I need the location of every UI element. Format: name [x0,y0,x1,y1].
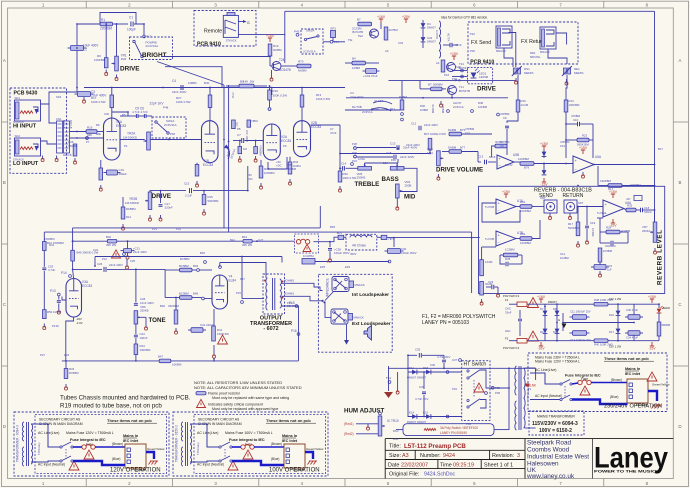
svg-text:C14: C14 [341,162,347,166]
anode riser V1A [111,88,113,119]
svg-text:T/Primary: T/Primary [196,442,200,455]
svg-text:Coombs Wood: Coombs Wood [527,446,570,453]
svg-text:22nF 400V: 22nF 400V [350,95,364,99]
polyswitch F1 [517,302,527,307]
resistor R40 grid EL84 [174,310,178,324]
IEC inlet [284,444,305,468]
IEC inlet 230 [627,379,648,403]
V2B follower output drop [339,125,341,171]
svg-text:-15V: -15V [648,347,656,351]
power +15V U8A [612,194,614,198]
power +16V T24 [269,38,271,42]
wire send jack to relay [509,33,516,68]
svg-text:A4: A4 [436,61,440,65]
svg-text:R22: R22 [582,134,588,138]
ground jack LO [56,156,58,159]
wire bright to B+ drop [157,62,224,86]
svg-text:C35: C35 [415,348,421,352]
svg-text:100V OPERATION: 100V OPERATION [269,468,320,474]
HT rail to transformer [388,367,536,369]
power +15V out [651,299,653,303]
svg-text:Green/Yellow: Green/Yellow [147,447,165,451]
svg-text:1uF: 1uF [607,268,612,272]
resistor R25 top [247,120,251,127]
pin P44 [330,40,333,43]
svg-text:C10: C10 [573,118,579,122]
svg-text:DM007: DM007 [427,26,436,30]
cathode network V1A [100,160,102,168]
svg-text:50KBM: 50KBM [433,83,443,87]
svg-text:P48: P48 [170,132,175,136]
switch SW1B [133,40,135,42]
svg-text:B77: B77 [460,145,465,149]
svg-text:R32: R32 [520,232,526,236]
OT secondary return [282,306,299,361]
thick neutral wire 230 [572,400,627,405]
mains fuse [82,445,86,449]
opamp U7B [496,231,516,246]
svg-text:4C7BM: 4C7BM [389,28,399,32]
wire R34 to return bus [135,355,137,361]
resistor R10 [268,90,272,100]
LED1 drive indicator [471,73,477,79]
drive volume line [340,153,429,155]
ground V2B cathode [289,179,291,182]
svg-text:330nF: 330nF [644,210,652,214]
LED6 power indicator [657,309,662,313]
wire cathode V1B to drive 2 [247,166,249,191]
svg-text:R35: R35 [287,163,293,167]
svg-text:230/240V OPERATION: 230/240V OPERATION [604,404,662,410]
coupling network C7 [241,138,243,143]
svg-text:1C2M: 1C2M [521,103,529,107]
power +20V [405,19,407,23]
svg-text:LED08: LED08 [479,75,488,79]
wire switch to fuse [232,446,241,448]
svg-text:68K: 68K [87,133,92,137]
ground VR3 [437,174,439,177]
svg-text:SECONDARY CIRCUIT AS: SECONDARY CIRCUIT AS [198,418,240,422]
svg-text:P15: P15 [236,291,241,295]
svg-text:RLF3T: RLF3T [374,99,383,103]
pin P43 [296,33,299,36]
svg-text:STKACK: STKACK [13,120,24,124]
svg-text:P27: P27 [40,353,45,357]
svg-text:www.laney.co.uk: www.laney.co.uk [526,473,575,480]
svg-text:L5T-112 Preamp PCB: L5T-112 Preamp PCB [404,443,466,450]
power +15V U5A [582,150,584,154]
choke coil [350,235,372,237]
svg-text:47KBM: 47KBM [441,104,445,114]
svg-text:0AC: 0AC [505,329,511,333]
wire transformer to switch [31,424,60,447]
safety triangle R40c [112,250,121,258]
safety triangle IEC 230 [647,372,657,381]
switch 230 neutral [560,398,562,400]
svg-text:R35: R35 [627,204,633,208]
red arrow down hum [388,366,390,391]
relay RS1 [513,68,516,74]
power +16V rail [380,19,382,23]
svg-text:680uF: 680uF [119,172,128,176]
wires LED feed [452,70,468,72]
svg-text:-2.6V: -2.6V [76,321,83,325]
resistor R41c screen [243,239,252,243]
svg-text:G: G [247,21,250,25]
HT switch dashed box [462,361,490,421]
svg-text:These items not on pcb: These items not on pcb [266,418,311,423]
PSU bottom rail [545,340,594,342]
svg-text:C13 1000uF 25V: C13 1000uF 25V [570,338,591,342]
power +15V bias [453,56,455,60]
svg-text:D11: D11 [409,366,414,370]
speaker icon [364,326,372,341]
resistor R4 [352,61,365,65]
svg-text:4.7nF 3KV: 4.7nF 3KV [415,397,429,401]
svg-text:STKACK: STKACK [13,157,24,161]
svg-text:30K 2W: 30K 2W [106,243,116,247]
wire R1 to C1 [113,23,129,25]
svg-text:14K .5W: 14K .5W [243,80,254,84]
ground C33 [58,308,60,311]
mains transformer [515,366,517,395]
transformer taps [525,367,536,369]
svg-text:R19 mouted to tube base, not o: R19 mouted to tube base, not on pcb [60,403,162,410]
capacitor C44 [449,43,451,48]
svg-text:ECC83: ECC83 [82,284,92,288]
svg-text:47nF: 47nF [231,92,235,99]
svg-text:P43: P43 [294,30,300,34]
ground R33 [65,384,67,387]
svg-text:50nF: 50nF [489,155,496,159]
svg-text:C34 47uF: C34 47uF [626,336,638,340]
svg-text:Y1B: Y1B [203,159,209,163]
ground V1B cathode [196,181,198,184]
svg-text:+15V: +15V [648,295,657,299]
svg-text:C10: C10 [560,144,566,148]
safety triangle fuse 230 [580,386,590,395]
svg-text:REVERB LEVEL: REVERB LEVEL [657,230,664,285]
svg-text:22uF 400V: 22uF 400V [133,250,147,254]
potentiometer VR4 MID [396,184,400,198]
wire YR2A to V1B grid [150,139,201,141]
speaker sense pad [302,259,315,265]
pin P20 [268,108,271,111]
svg-text:TE2: TE2 [358,34,364,38]
send RCA jack [544,200,557,213]
svg-text:P21: P21 [152,227,157,231]
svg-text:47PBM: 47PBM [465,127,475,131]
capacitor C13 treble [396,145,398,150]
svg-text:1MBM: 1MBM [420,108,429,112]
svg-text:R38: R38 [478,101,484,105]
speaker link wire [325,303,331,318]
svg-text:6K8BM: 6K8BM [126,207,136,211]
svg-text:BC5BM: BC5BM [179,264,189,268]
svg-text:C9: C9 [503,116,507,120]
svg-text:C12: C12 [411,122,417,126]
tube Y4 EL84 [212,275,228,309]
svg-text:HT Switch: HT Switch [464,362,487,368]
svg-text:TL072B: TL072B [485,237,494,241]
svg-text:R23: R23 [64,353,70,357]
svg-text:C11 1000uF 25V: C11 1000uF 25V [570,310,591,314]
svg-text:B17: B17 [658,147,663,151]
svg-text:P13C: P13C [52,324,59,328]
svg-text:C37: C37 [452,358,458,362]
svg-text:BC5BM: BC5BM [180,257,190,261]
svg-text:150KBM: 150KBM [44,237,55,241]
svg-text:22/02/2007: 22/02/2007 [401,462,428,468]
resistor R32 [520,237,532,241]
svg-text:Number:: Number: [420,453,441,459]
ground send jack [549,214,551,217]
capacitor C33 grid [57,300,61,302]
safety triangle F1 [528,298,539,308]
svg-text:B: B [3,180,6,185]
svg-text:D16: D16 [609,313,615,317]
svg-text:10KBM: 10KBM [478,105,488,109]
LED1 dashed box [468,68,493,84]
svg-text:P17: P17 [146,35,152,39]
reverb module box [479,186,665,293]
svg-text:MNACK: MNACK [496,49,506,53]
ground R30 [339,186,341,189]
svg-text:+DC: +DC [276,164,282,168]
svg-text:EP3: EP3 [320,265,326,269]
svg-text:B40: B40 [106,235,111,239]
svg-text:+DC: +DC [247,177,253,181]
switch SW2A [304,38,306,40]
resistor R34 tone [135,338,137,344]
MID loop wire [400,168,417,191]
svg-text:DRIVE: DRIVE [152,193,172,200]
100V mains dashed box [173,412,328,476]
svg-text:Remote: Remote [204,29,222,35]
wire switch to fuse [73,446,82,448]
svg-text:C23: C23 [488,280,494,284]
HT rail B [44,231,471,233]
svg-text:P48: P48 [163,106,169,110]
svg-text:100pF: 100pF [127,27,136,31]
Remote PCB 9410 dashed box [194,11,256,47]
svg-text:SK3: SK3 [56,95,62,99]
wire V3A out right [62,297,66,301]
ground R3 [100,185,102,188]
svg-text:- 6072: - 6072 [263,326,278,332]
svg-text:9424: 9424 [443,453,455,459]
ground MID [396,204,398,207]
svg-text:C2: C2 [83,47,87,51]
ground C23 [497,291,499,294]
earth wire and chassis [146,452,154,459]
resistor R33 bias bleed [64,369,68,379]
wire VR7 feed [654,210,656,222]
resistor R14 [121,207,125,219]
svg-text:Int Loudspeaker: Int Loudspeaker [352,292,389,298]
svg-text:100KBM: 100KBM [518,157,530,161]
svg-text:P39: P39 [466,422,471,426]
svg-text:B40: B40 [204,81,210,85]
svg-text:IEC Inlet: IEC Inlet [625,372,641,376]
svg-text:100nF: 100nF [140,336,148,340]
relay RE1 [563,68,566,74]
svg-text:FX Send: FX Send [471,40,491,46]
svg-text:IEC Inlet: IEC Inlet [282,439,298,443]
capacitor C11 smoothing [573,315,587,320]
primary feed wire [508,368,510,430]
svg-text:Title:: Title: [389,444,401,450]
resistor R42 supply [43,242,47,251]
resistor R78 loop [495,144,507,148]
potentiometer YR2B drive 2 [148,192,152,210]
anode riser V2A [271,88,273,96]
svg-text:DABM: DABM [448,145,457,149]
wire remote drop [284,35,286,63]
svg-text:C19: C19 [590,221,596,225]
resistor R50 [43,310,47,319]
mains transformer info dashed box [529,411,584,435]
svg-text:P46: P46 [470,49,475,53]
title block border [385,438,673,440]
zener D16 [617,304,619,322]
svg-text:-16V: -16V [537,347,545,351]
cathode resistor V1B [195,165,199,177]
HT diodes D11 D15 [408,371,462,373]
svg-text:C25: C25 [130,259,136,263]
PSU AC wires [509,303,517,305]
svg-text:BP2: BP2 [330,225,336,229]
OT polarity dots [264,280,266,282]
svg-text:+16V: +16V [537,295,546,299]
120V mains dashed box [14,412,169,476]
speaker ground arrow [346,324,348,340]
svg-text:SKP: SKP [540,196,546,200]
svg-text:These items not on pcb: These items not on pcb [604,356,649,361]
svg-text:1M-500KD: 1M-500KD [123,136,137,140]
svg-text:100K 0.5W: 100K 0.5W [176,100,191,104]
svg-text:P14: P14 [61,271,67,275]
ground PSU mid [562,324,567,329]
svg-text:Size:: Size: [389,453,401,459]
safety triangle F3 [303,244,311,251]
svg-text:NBM: NBM [252,119,259,123]
ground R50 [43,324,45,327]
svg-text:Mains Fuse 120V = T500mA L: Mains Fuse 120V = T500mA L [535,360,580,364]
pin P18 [219,266,222,269]
svg-text:Fuse: Fuse [581,377,588,381]
resistor R37 [428,138,432,150]
capacitor C34 tone [135,324,137,334]
svg-text:P28: P28 [352,142,357,146]
svg-text:ECC83: ECC83 [116,124,126,128]
PSU top rail [545,303,594,305]
svg-text:+15V: +15V [502,190,511,194]
svg-text:Industrial Estate West: Industrial Estate West [527,453,589,460]
svg-text:LANEY PN = 005103: LANEY PN = 005103 [422,320,469,326]
svg-text:Sheet 1 of 1: Sheet 1 of 1 [484,462,513,468]
svg-text:+15V: +15V [579,146,588,150]
resistor R19 [268,44,272,56]
zener D17 [617,323,619,341]
pin P13 [57,293,60,296]
svg-text:250KA: 250KA [642,229,651,233]
cathode resistor V2A [259,166,263,178]
svg-text:F1: F1 [505,298,509,302]
svg-text:C24: C24 [93,248,99,252]
svg-text:R70: R70 [298,60,304,64]
svg-text:3A Poly Switch / 85TEF100: 3A Poly Switch / 85TEF100 [440,426,478,430]
fuse F3 dashed box [295,234,319,253]
mains switch live [60,446,62,448]
svg-text:D8: D8 [553,307,557,311]
power -16V raw [540,342,542,346]
chassis symbol 230 [653,404,661,406]
switch box SW2 dashed [301,29,323,54]
chassis symbol [150,460,158,462]
svg-text:R33: R33 [293,160,299,164]
svg-text:T/Primary: T/Primary [37,442,41,455]
svg-text:D15: D15 [423,366,429,370]
HT diodes D14 D15 [408,416,462,418]
safety triangle fuse [243,450,253,459]
ground R17 return [577,241,579,244]
svg-text:BC5BM: BC5BM [179,291,189,295]
V2B cathode follower wire [286,157,288,169]
svg-text:C14: C14 [560,252,566,256]
resistor R47 feedback tap [159,359,171,363]
svg-text:Fuse Integral to IEC: Fuse Integral to IEC [70,438,106,442]
svg-text:Mains In: Mains In [282,434,298,438]
FX loop PCB 9410 dashed box [468,22,578,64]
svg-text:TL072A: TL072A [597,211,606,215]
svg-text:C34: C34 [398,41,404,45]
svg-text:TL072: TL072 [505,163,513,167]
svg-text:Flame proof resistor: Flame proof resistor [208,392,241,396]
svg-text:P22: P22 [176,227,181,231]
svg-text:F2: F2 [505,337,509,341]
resistor R17 anode load [110,95,114,108]
U5A output wire [594,164,655,166]
mains switch neutral [219,460,221,462]
svg-text:(Blue): (Blue) [610,395,618,399]
svg-text:10KBM: 10KBM [172,363,182,367]
ground R14 [122,224,124,227]
wire V1A plate to coupling [112,112,128,116]
remote jack [223,15,238,37]
svg-text:+16V: +16V [377,15,386,19]
U7A feedback loop [482,203,520,222]
capacitor C19 [585,225,589,227]
potentiometer VR7 reverb level [653,222,657,242]
ground C15 [599,271,601,274]
svg-text:D: D [678,424,681,429]
row tick marks [2,121,8,123]
wire C26 to tone [107,268,165,270]
svg-text:6.3VTA: 6.3VTA [435,30,439,39]
svg-text:T1: T1 [528,387,532,391]
PSU rails after regs [608,303,659,305]
title block column lines [414,450,416,459]
svg-text:100KBM: 100KBM [520,209,532,213]
resistor R24 [441,60,445,72]
svg-text:MAINS TRANSFORMER: MAINS TRANSFORMER [537,415,575,419]
pin P16 [86,137,89,140]
ground R40 [175,328,177,331]
mute feed wire [389,80,517,82]
resistor R48 grid stopper [180,296,193,300]
svg-text:Must only be replaced with app: Must only be replaced with approved type [212,407,278,411]
